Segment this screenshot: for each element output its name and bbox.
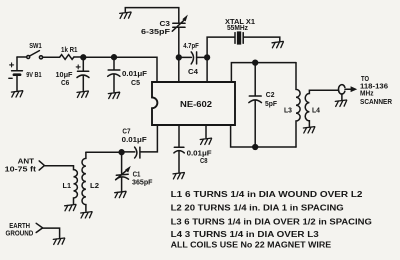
node (C2 bottom) — [253, 145, 258, 150]
switch SW1 — [27, 51, 43, 59]
crystal X1 — [235, 31, 243, 44]
svg-text:4.7pF: 4.7pF — [183, 41, 199, 50]
svg-text:L4 3 TURNS 1/4 in DIA OVER L3: L4 3 TURNS 1/4 in DIA OVER L3 — [171, 230, 320, 239]
IC pin from C3 node — [178, 57, 180, 82]
svg-text:0.01μF: 0.01μF — [122, 135, 147, 144]
svg-text:C2: C2 — [266, 90, 275, 99]
node (C4/XTAL/pin) — [205, 55, 210, 60]
ground (earth) — [53, 238, 64, 244]
wire earth ground — [43, 228, 60, 238]
wire C3 top to ground — [125, 8, 179, 23]
svg-text:C4: C4 — [188, 67, 199, 76]
svg-text:SW1: SW1 — [29, 41, 42, 50]
capacitor C7 — [122, 147, 140, 158]
svg-text:55MHz: 55MHz — [227, 23, 248, 32]
capacitor C8 — [174, 147, 184, 172]
inductor L4 — [305, 90, 339, 126]
battery B1 — [9, 57, 23, 91]
svg-text:1k R1: 1k R1 — [61, 45, 78, 54]
wire node to L2 — [86, 151, 122, 153]
ground (L2) — [81, 212, 92, 218]
ground (C3 top) — [120, 12, 131, 18]
wire antenna to L1 — [44, 165, 73, 167]
wire crystal to ground — [244, 37, 280, 41]
wire battery to switch — [17, 56, 27, 58]
svg-text:NE-602: NE-602 — [180, 99, 212, 109]
ground (C8) — [173, 173, 184, 179]
ground (C1) — [115, 191, 126, 197]
svg-text:10-75 ft: 10-75 ft — [5, 164, 37, 173]
svg-text:L2: L2 — [90, 181, 99, 190]
wire R1 to junction — [74, 56, 83, 58]
svg-text:6-35pF: 6-35pF — [141, 27, 170, 36]
svg-text:365pF: 365pF — [132, 177, 153, 186]
svg-text:C5: C5 — [131, 78, 141, 87]
capacitor C2 — [249, 63, 262, 147]
svg-text:C6: C6 — [61, 78, 69, 87]
ground (C6) — [77, 91, 88, 97]
capacitor C5 — [108, 57, 120, 92]
IC bottom pin to C7 wire — [140, 125, 157, 152]
earth ground lead — [36, 223, 42, 232]
inductor L3 — [296, 63, 300, 147]
ground (C5) — [108, 92, 119, 98]
wire switch to R1 — [43, 56, 60, 58]
ground (L1) — [65, 204, 76, 210]
ground (L4) — [303, 127, 314, 133]
svg-text:9V B1: 9V B1 — [26, 70, 42, 79]
ground (battery) — [11, 91, 22, 97]
wire node up to crystal — [207, 37, 235, 57]
svg-text:L4: L4 — [312, 106, 321, 115]
inductor L1 — [74, 166, 78, 204]
capacitor C3 (variable) — [172, 16, 187, 58]
IC pin from C4 node — [206, 57, 208, 82]
IC bottom-right pin to bottom rail — [231, 125, 296, 147]
svg-text:SCANNER: SCANNER — [360, 97, 392, 106]
svg-text:L1 6 TURNS 1/4 in DIA WOUND OV: L1 6 TURNS 1/4 in DIA WOUND OVER L2 — [171, 190, 364, 199]
capacitor C1 (variable) — [116, 152, 130, 191]
output connector — [338, 85, 356, 100]
ground (connector) — [335, 100, 346, 106]
antenna lead-in — [39, 161, 44, 170]
IC bottom pin to C8 — [178, 125, 180, 147]
capacitor C6 — [76, 57, 89, 90]
node (C2 top) — [253, 60, 258, 65]
capacitor C4 — [179, 52, 207, 64]
svg-text:L3 6 TURNS 1/4 in DIA OVER 1/2: L3 6 TURNS 1/4 in DIA OVER 1/2 in SPACIN… — [171, 217, 372, 226]
ground (pin) — [200, 138, 211, 144]
svg-text:C8: C8 — [200, 156, 208, 165]
IC U1 NE-602 body — [152, 82, 235, 125]
ground (crystal) — [272, 41, 283, 47]
svg-text:5pF: 5pF — [265, 99, 277, 108]
svg-text:ALL COILS USE No 22 MAGNET WIR: ALL COILS USE No 22 MAGNET WIRE — [171, 241, 332, 250]
wire C5 node to IC pin corner — [114, 57, 157, 82]
svg-text:0.01μF: 0.01μF — [122, 69, 147, 78]
svg-text:L1: L1 — [63, 181, 72, 190]
svg-text:L3: L3 — [284, 106, 292, 115]
IC top-right pin to output rail — [231, 63, 296, 82]
node (R1/C6) — [81, 55, 86, 60]
svg-text:GROUND: GROUND — [6, 228, 34, 237]
resistor R1 — [60, 55, 74, 60]
wire junction to C5 node — [83, 56, 114, 58]
IC bottom pin to ground — [205, 125, 207, 138]
node (C1/C7/L2) — [119, 150, 124, 155]
svg-text:L2 20 TURNS 1/4 in. DIA 1 in S: L2 20 TURNS 1/4 in. DIA 1 in SPACING — [171, 204, 344, 213]
inductor L2 — [82, 152, 86, 211]
node (C3/C4/pin) — [176, 55, 181, 60]
node (C5) — [112, 55, 117, 60]
